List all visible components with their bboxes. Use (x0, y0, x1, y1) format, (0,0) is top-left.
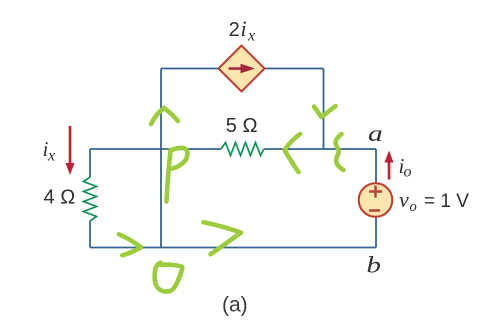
wire: right branch vertical above voltage source (375, 149, 377, 184)
annotation green up-caret on left inner vertical (151, 108, 178, 124)
wire: left inner vertical (x=161) from top loop down to bottom wire (160, 69, 162, 248)
wire: middle horizontal right segment (264, 148, 376, 150)
arrow inside diamond (229, 67, 242, 70)
wire: top horizontal left of diamond (161, 68, 222, 70)
svg-text:x: x (247, 28, 255, 45)
svg-text:(a): (a) (222, 294, 248, 317)
svg-text:a: a (368, 120, 383, 146)
annotation green left-arrow on middle wire (285, 134, 301, 172)
svg-text:= 1 V: = 1 V (424, 191, 469, 212)
annotation green circle blob below bottom wire (155, 263, 183, 292)
minus sign in source (369, 209, 380, 212)
svg-text:x: x (47, 148, 55, 165)
wire: left branch vertical below 4ohm resistor (89, 221, 91, 248)
resistor 5ohm zigzag (221, 143, 264, 156)
svg-text:o: o (410, 199, 417, 215)
svg-text:2: 2 (229, 19, 240, 41)
annotation green check mark on top-right vertical (314, 106, 336, 117)
resistor 4ohm zigzag (84, 177, 97, 221)
svg-text:o: o (404, 164, 412, 181)
wire: right branch vertical below voltage source (375, 216, 377, 248)
wire: left branch vertical above 4ohm resistor (89, 149, 91, 177)
svg-text:4 Ω: 4 Ω (44, 187, 76, 209)
voltage source circle vo=1V (359, 183, 393, 217)
annotation green letter p (167, 148, 188, 202)
annotation large green right-arrow on bottom wire (204, 222, 242, 254)
svg-text:v: v (399, 187, 409, 212)
svg-text:5 Ω: 5 Ω (226, 115, 258, 137)
wire: top horizontal right of diamond (261, 68, 324, 70)
red arrow ix (down) (69, 126, 72, 165)
svg-text:b: b (367, 252, 381, 278)
annotation green squiggle right of junction (336, 134, 344, 170)
wire: bottom horizontal (90, 247, 376, 249)
annotation small green right-arrow on bottom wire (119, 234, 141, 255)
red arrow io (up) (388, 161, 391, 180)
svg-text:i: i (241, 16, 247, 41)
dependent current source diamond 2ix (219, 46, 265, 92)
wire: right vertical of top loop (x=323.5) (323, 69, 325, 150)
wire: middle horizontal left segment (90, 148, 221, 150)
plus sign in source (369, 190, 382, 193)
